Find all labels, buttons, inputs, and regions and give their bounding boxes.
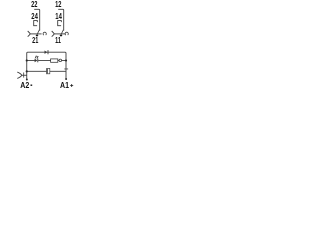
contact K2 NO arc contact	[65, 32, 68, 35]
LED D2 cathode bar	[37, 59, 39, 63]
svg-text:11: 11	[55, 36, 61, 45]
contact K1 NO arc contact	[43, 32, 46, 35]
svg-text:12: 12	[55, 0, 62, 9]
svg-text:14: 14	[55, 11, 62, 21]
contact K2 moving contact link	[61, 31, 63, 35]
label A2 polarity dash	[31, 85, 33, 86]
wire bottom rail	[27, 70, 66, 72]
contact K1 NO bracket terminal 24	[34, 21, 38, 26]
relay coil box K	[51, 59, 58, 62]
contact K2 fork terminal	[52, 31, 55, 37]
contact K1 NC fixed contact foot	[39, 29, 41, 31]
junction node left middle	[26, 59, 28, 61]
LED D2 emission arrows	[35, 56, 38, 59]
contact K2 NO bracket terminal 14	[58, 21, 62, 26]
label A1 polarity plus	[70, 84, 73, 87]
junction node right middle	[65, 59, 67, 61]
terminal A2 branch wire	[22, 74, 27, 76]
contact K1 lead from terminal 22	[34, 9, 40, 30]
pilot circle node	[59, 59, 62, 62]
diode D1 on top rail	[45, 51, 48, 54]
contact K2 pivot dot node	[60, 35, 63, 37]
contact K1 movable arm wire	[30, 33, 41, 35]
wire middle row	[27, 59, 66, 61]
terminal A2 end dot	[26, 79, 28, 81]
terminal A2 fork	[17, 72, 22, 78]
capacitor C1 box plate	[48, 68, 50, 73]
contact K2 NC fixed contact foot	[63, 29, 65, 31]
contact K1 moving contact link	[37, 31, 39, 35]
contact K2 movable arm wire	[54, 33, 65, 35]
terminal A1 tick bar	[64, 68, 68, 70]
svg-text:A2: A2	[20, 80, 29, 90]
svg-text:24: 24	[31, 11, 38, 21]
LED D2 triangle	[35, 59, 38, 63]
wire ladder frame: top rail and side rails	[27, 52, 66, 79]
svg-text:21: 21	[32, 36, 39, 45]
svg-text:A1: A1	[60, 80, 69, 90]
svg-text:22: 22	[31, 0, 38, 9]
capacitor C1 bar plate	[46, 68, 48, 74]
junction node bottom left	[26, 70, 28, 72]
contact K1 pivot dot node	[36, 35, 39, 37]
contact K1 fork terminal	[28, 31, 31, 37]
terminal A2 tick bar	[23, 73, 25, 78]
terminal A1 end dot	[65, 78, 67, 80]
contact K2 lead from terminal 12	[58, 9, 64, 30]
